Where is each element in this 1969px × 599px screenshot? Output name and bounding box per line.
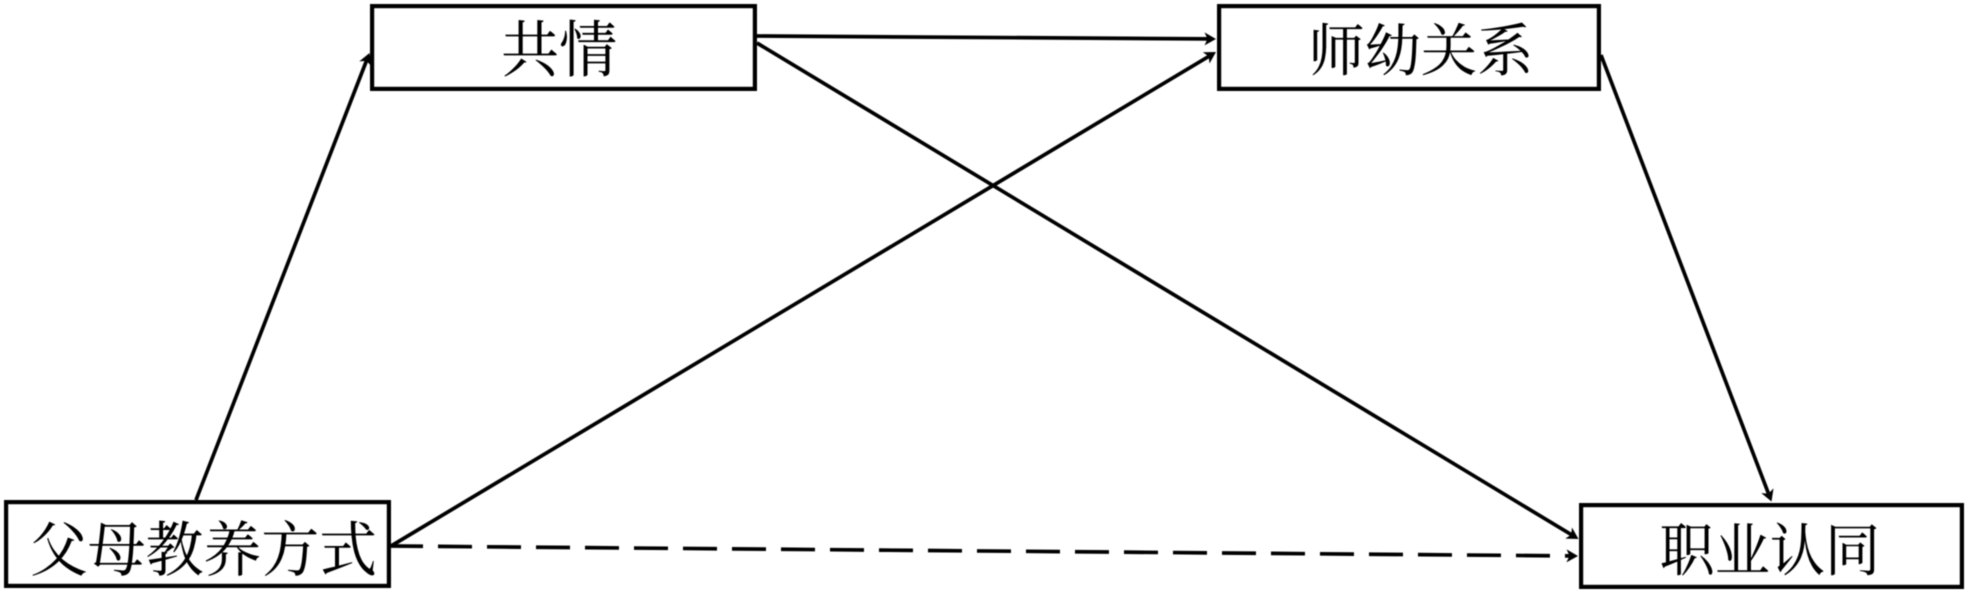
arrow: 共情 → 师幼关系 (solid) bbox=[757, 32, 1216, 45]
box: 职业认同 bbox=[1581, 505, 1962, 587]
arrow: 共情 → 职业认同 (solid) bbox=[757, 43, 1579, 539]
box: 共情 bbox=[372, 6, 755, 89]
label: 师幼关系 bbox=[1313, 23, 1529, 76]
label: 父母教养方式 bbox=[33, 520, 375, 576]
box: 师幼关系 bbox=[1219, 6, 1599, 89]
arrow: 父母教养方式 → 共情 (solid) bbox=[196, 53, 371, 500]
label: 职业认同 bbox=[1662, 523, 1877, 576]
arrow: 父母教养方式 → 师幼关系 (solid) bbox=[391, 52, 1216, 546]
label: 共情 bbox=[504, 20, 616, 77]
arrow: 师幼关系 → 职业认同 (solid) bbox=[1601, 55, 1774, 502]
box: 父母教养方式 bbox=[6, 502, 389, 586]
arrow: 父母教养方式 → 职业认同 (dashed) bbox=[391, 546, 1578, 562]
